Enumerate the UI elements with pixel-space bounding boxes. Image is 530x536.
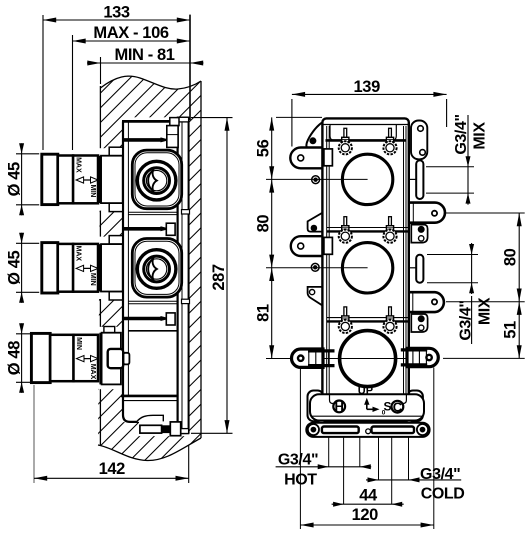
front view: right tab A (below ear) bbox=[411, 225, 427, 243]
svg-text:0: 0 bbox=[382, 410, 386, 417]
dimension &#216; 45 ticks bbox=[16, 153, 39, 155]
centerline station 3 / ears bbox=[266, 358, 434, 360]
centerline station 2 bbox=[266, 267, 368, 269]
svg-text:C: C bbox=[393, 400, 403, 415]
station 1 escutcheon steps bbox=[109, 147, 123, 156]
front view: left gusset (down) bbox=[308, 287, 327, 308]
bottom bar right bolt bbox=[417, 424, 428, 435]
top fitting bolt cap bbox=[170, 118, 179, 126]
svg-text:H: H bbox=[335, 399, 344, 414]
svg-text:287: 287 bbox=[210, 264, 228, 291]
dimension 142 bbox=[34, 477, 189, 479]
bottom-left ear segments bbox=[308, 351, 310, 366]
UP elbow arrow bbox=[366, 401, 368, 410]
station 3 fixing rod bbox=[123, 317, 161, 321]
dimension &#216; 45 bbox=[21, 143, 23, 215]
MIX1 port dimension bbox=[426, 166, 474, 168]
dimension MAX-106 bbox=[73, 40, 191, 42]
cold marker C bbox=[392, 401, 404, 413]
dimension MIN-81 bbox=[87, 62, 204, 64]
handle 3 mid section bbox=[50, 335, 73, 381]
tray corner notches bbox=[330, 395, 338, 404]
station 3 left block bbox=[123, 353, 129, 365]
svg-text:MIN: MIN bbox=[89, 184, 96, 197]
svg-text:MIN: MIN bbox=[89, 273, 96, 286]
svg-text:139: 139 bbox=[354, 78, 381, 96]
svg-text:MIX: MIX bbox=[472, 122, 489, 150]
centerline station 1 bbox=[266, 178, 368, 180]
screw station 3 x345 bbox=[344, 307, 347, 317]
handle 2 knob bbox=[42, 243, 58, 293]
front view: right ear A bbox=[402, 203, 445, 223]
front view: right ear B bbox=[402, 292, 444, 312]
plate cross blocks bbox=[182, 210, 190, 214]
left chain dimension line bbox=[271, 117, 273, 358]
dimension &#216; 45 ticks bbox=[16, 242, 39, 244]
handle 2 stem section bbox=[73, 244, 98, 292]
wall back surface wave bbox=[98, 438, 201, 461]
handle 1 stem section bbox=[73, 156, 98, 204]
front view: right port slot station2 bbox=[416, 255, 423, 283]
handle 1 mid section bbox=[58, 156, 73, 204]
screw station 1 x345 bbox=[344, 128, 347, 138]
body base white area bbox=[139, 422, 189, 436]
svg-text:MIN: MIN bbox=[75, 337, 82, 350]
svg-text:120: 120 bbox=[352, 506, 379, 524]
front view: bottom corner feet bbox=[308, 391, 324, 422]
handle 3 stem section bbox=[74, 335, 99, 381]
dimension 133 bbox=[43, 19, 190, 21]
rough-in body cavity (white area in wall) bbox=[123, 117, 189, 422]
screw station 3 x390 bbox=[389, 307, 392, 317]
station 2 escutcheon steps bbox=[109, 236, 123, 245]
bottom bar left bolt bbox=[308, 424, 319, 435]
svg-text:UP: UP bbox=[358, 385, 373, 397]
station 2 rod block bbox=[166, 223, 175, 235]
station 2 port slot bbox=[148, 259, 157, 280]
front view: left ear station1 bbox=[290, 148, 333, 169]
body base plate bbox=[140, 425, 162, 433]
handle 3 knob bbox=[31, 333, 50, 382]
station 1 rod block bbox=[167, 126, 178, 148]
dimension &#216; 45 bbox=[21, 233, 23, 303]
dimension 287 extension lines bbox=[191, 117, 233, 119]
divider lines between stations 1-2 bbox=[128, 211, 178, 213]
dimension 142 extension lines bbox=[33, 385, 35, 483]
front view: divider seam 2-3 bbox=[327, 317, 408, 319]
handle 1 adjust arrow bbox=[79, 179, 96, 181]
plate top cap bbox=[178, 117, 189, 122]
front view: bottom-right big ear bbox=[407, 348, 438, 366]
dimension 133 extension lines bbox=[42, 15, 44, 150]
front view: left boss station1 bbox=[312, 176, 320, 184]
svg-text:MIN - 81: MIN - 81 bbox=[114, 46, 174, 64]
HOT port dimension/leader bbox=[276, 466, 372, 468]
front view: inner top step bbox=[326, 139, 407, 142]
station 1 cartridge housing bbox=[132, 150, 181, 209]
screw station 2 x345 bbox=[344, 217, 347, 227]
station 3 housing top boundary bbox=[128, 330, 176, 332]
svg-text:44: 44 bbox=[359, 487, 378, 505]
svg-text:MAX: MAX bbox=[75, 157, 82, 173]
body bottom foot bbox=[170, 422, 180, 436]
wall holes for handle stems bbox=[98, 148, 123, 210]
svg-text:COLD: COLD bbox=[421, 485, 465, 502]
dimension 139 bbox=[292, 93, 447, 95]
front view: divider seam 1-2 bbox=[327, 227, 408, 229]
svg-text:MAX: MAX bbox=[75, 246, 82, 262]
station 2 fixing rod bbox=[123, 227, 161, 231]
front view: left ear station2 bbox=[291, 236, 334, 256]
station 2 cartridge housing bbox=[132, 239, 181, 298]
station 1 port slot bbox=[148, 170, 157, 191]
dimension &#216; 48 ticks bbox=[16, 333, 39, 335]
front view: top-left corner tab bbox=[306, 122, 323, 152]
front view: bottom tray bbox=[310, 394, 424, 420]
dimension 120 bbox=[300, 524, 433, 526]
mounting plate (against wall) bbox=[178, 117, 189, 433]
svg-text:HOT: HOT bbox=[284, 472, 317, 489]
svg-text:Ø 48: Ø 48 bbox=[5, 341, 23, 375]
svg-text:MAX - 106: MAX - 106 bbox=[93, 24, 168, 42]
dimension &#216; 48 bbox=[21, 323, 23, 393]
svg-text:80: 80 bbox=[501, 248, 519, 266]
divider lines between stations 2-3 bbox=[128, 300, 178, 302]
ear1 inner block bbox=[324, 149, 333, 166]
station 3 rod block bbox=[166, 313, 175, 325]
dimension MAX-106 extension line bbox=[72, 35, 74, 150]
plate bottom cap bbox=[178, 429, 189, 434]
bottom bar center hole bbox=[366, 429, 371, 434]
bottom-right ear segments bbox=[425, 350, 427, 365]
svg-text:51: 51 bbox=[501, 321, 519, 339]
station 3 escutcheon step bbox=[104, 327, 115, 333]
front view: main box outline bbox=[322, 118, 408, 421]
station 1 fixing rod bbox=[123, 138, 161, 142]
svg-text:Ø 45: Ø 45 bbox=[5, 162, 23, 196]
body inner left line bbox=[127, 122, 129, 396]
dimension 44 bbox=[332, 503, 404, 505]
station 2 escutcheon box bbox=[101, 244, 123, 291]
station 3 escutcheon box bbox=[102, 333, 121, 385]
front view: right port slot station1 bbox=[416, 160, 423, 199]
MIX2 port dimension bbox=[427, 254, 478, 256]
svg-text:142: 142 bbox=[99, 460, 126, 478]
front view: left boss station2 bbox=[311, 263, 319, 271]
wall front surface line bbox=[100, 76, 201, 89]
body base spacer (solid) bbox=[162, 425, 171, 433]
cartridge circle station 2 bbox=[342, 243, 392, 293]
svg-text:Ø 45: Ø 45 bbox=[5, 250, 23, 284]
handle 1 knob bbox=[42, 154, 58, 204]
right edge center ticks bbox=[410, 178, 417, 180]
svg-text:G3/4": G3/4" bbox=[278, 452, 318, 469]
descending extension lines below bar bbox=[328, 437, 330, 467]
svg-text:133: 133 bbox=[103, 4, 130, 22]
dimension 139 extension lines bbox=[291, 99, 293, 147]
handle 3 adjust arrow bbox=[79, 358, 96, 360]
svg-text:81: 81 bbox=[255, 304, 273, 322]
left chain extension lines bbox=[276, 116, 322, 118]
front view: box inner frame lines bbox=[323, 124, 408, 126]
front view: top-right corner tab bbox=[411, 121, 427, 160]
screw station 2 x390 bbox=[389, 217, 392, 227]
svg-text:G3/4": G3/4" bbox=[453, 114, 470, 154]
front view: right tab B (below ear) bbox=[411, 314, 427, 332]
body bottom seam lines bbox=[121, 395, 178, 398]
wall right edge bbox=[200, 81, 202, 438]
station 1 escutcheon box bbox=[101, 156, 123, 203]
front view: left gusset (up) bbox=[308, 210, 327, 231]
right chain dimension line bbox=[518, 213, 520, 358]
body top edge bbox=[122, 120, 179, 123]
body bottom hump profile bbox=[137, 415, 164, 422]
ear2 inner block bbox=[324, 237, 333, 254]
dimension 287 bbox=[226, 118, 228, 434]
cartridge circle station 1 bbox=[342, 154, 392, 204]
svg-text:56: 56 bbox=[255, 139, 273, 157]
handle 2 adjust arrow bbox=[79, 267, 96, 269]
svg-text:MIX: MIX bbox=[477, 297, 494, 325]
front view: bottom-left big ear bbox=[292, 349, 324, 367]
dimension MIN-81 extension line bbox=[100, 57, 102, 84]
front view: bottom bar bbox=[306, 423, 429, 437]
wall left edge bbox=[99, 86, 101, 148]
svg-text:MAX: MAX bbox=[89, 364, 96, 380]
screw station 1 x390 bbox=[389, 128, 392, 138]
station 2 side port circles bbox=[137, 250, 176, 289]
bottom bar slots bbox=[322, 427, 359, 434]
cartridge circle station 3 bbox=[340, 331, 396, 387]
station 1 side port circles bbox=[137, 161, 176, 200]
COLD port dimension/leader bbox=[366, 479, 461, 481]
hot marker H bbox=[333, 401, 345, 413]
valve body outline (side view) bbox=[123, 122, 139, 422]
right chain extension lines bbox=[446, 212, 525, 214]
handle 2 mid section bbox=[58, 244, 73, 292]
svg-text:80: 80 bbox=[255, 215, 273, 233]
